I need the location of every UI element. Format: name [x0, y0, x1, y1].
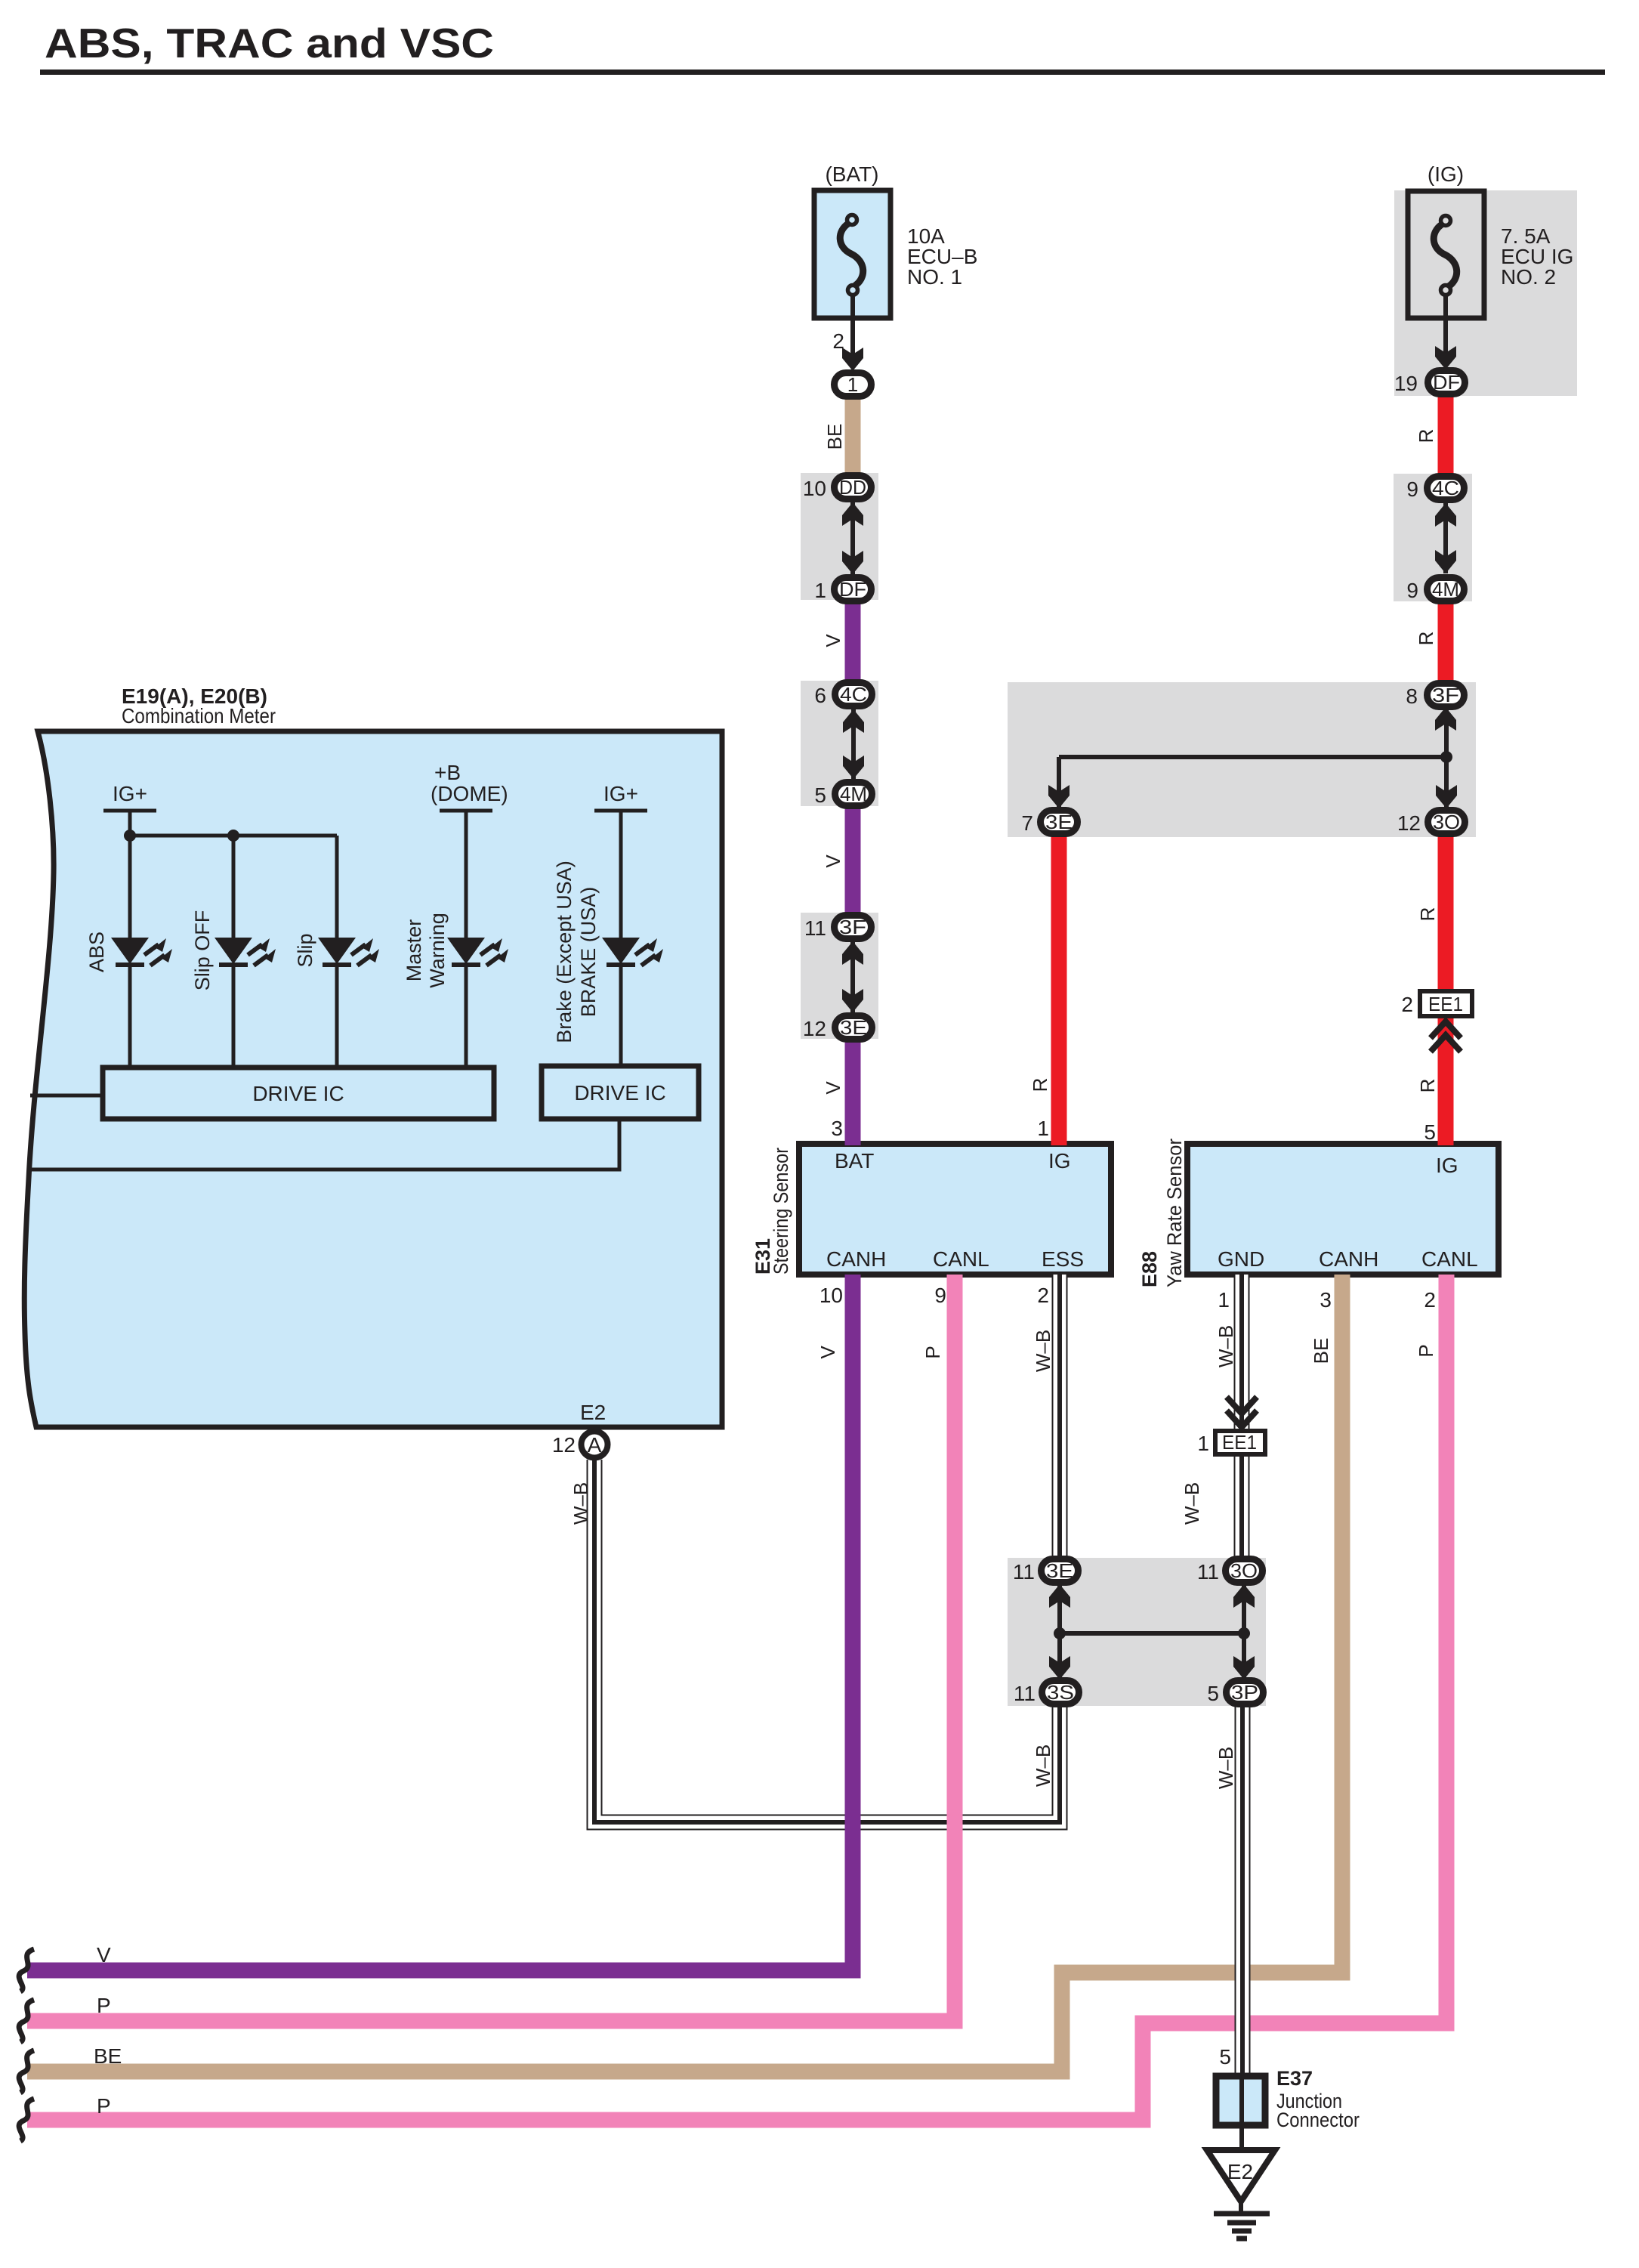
arrow down into DF [842, 551, 863, 574]
svg-text:E37: E37 [1276, 2067, 1313, 2090]
svg-text:V: V [822, 1081, 844, 1095]
wires from LEDs to DRIVE IC [130, 966, 621, 1068]
arrow up into 3O (lower box) [1233, 1584, 1255, 1608]
svg-text:DF: DF [839, 578, 866, 601]
svg-text:Warning: Warning [426, 913, 449, 988]
svg-text:8: 8 [1406, 684, 1418, 708]
svg-text:DRIVE IC: DRIVE IC [252, 1082, 344, 1105]
svg-text:EE1: EE1 [1222, 1431, 1257, 1454]
svg-text:10: 10 [819, 1284, 843, 1307]
lower box internal wiring 3E/3O/3S/3P [1060, 1584, 1244, 1679]
svg-text:(IG): (IG) [1428, 162, 1464, 186]
connector 3O pin 11 (lower) [1226, 1559, 1263, 1583]
svg-text:ESS: ESS [1042, 1247, 1084, 1271]
svg-text:R: R [1415, 632, 1437, 646]
svg-text:E88: E88 [1138, 1251, 1161, 1287]
wire BE fuse to DD [845, 393, 861, 484]
svg-text:4M: 4M [1432, 578, 1459, 601]
DRIVE IC box 1 [103, 1068, 494, 1119]
svg-text:E2: E2 [1227, 2160, 1253, 2183]
svg-text:9: 9 [1406, 579, 1418, 602]
svg-text:CANL: CANL [933, 1247, 989, 1271]
DRIVE IC box 2 [542, 1066, 699, 1119]
svg-text:(DOME): (DOME) [431, 782, 508, 805]
steering sensor E31 box [799, 1144, 1111, 1275]
svg-text:CANL: CANL [1421, 1247, 1478, 1271]
LED ABS indicator [111, 938, 172, 967]
svg-text:Combination Meter: Combination Meter [122, 704, 276, 728]
svg-text:11: 11 [1013, 1560, 1035, 1584]
svg-text:Master: Master [403, 919, 425, 982]
link 3F-3E (BAT column) [850, 941, 855, 1012]
wire V 3E to steering BAT [845, 1023, 861, 1145]
svg-text:12: 12 [1397, 811, 1421, 835]
ground symbol E2 [1207, 2150, 1275, 2239]
svg-text:DRIVE IC: DRIVE IC [574, 1081, 665, 1105]
svg-text:12: 12 [552, 1433, 576, 1457]
link DD-DF [850, 502, 855, 574]
arrow down into 3S [1049, 1656, 1070, 1679]
wire through E37 to ground [1239, 2073, 1244, 2150]
svg-text:4M: 4M [840, 783, 867, 805]
svg-text:W–B: W–B [1032, 1744, 1054, 1787]
wire from DRIVE IC 2 to meter edge [29, 1119, 619, 1170]
svg-text:1: 1 [847, 373, 858, 396]
svg-text:CANH: CANH [826, 1247, 886, 1271]
connector 3E pin 7 [1041, 811, 1078, 834]
svg-text:P: P [921, 1346, 944, 1358]
connector 1 (below BAT fuse) [835, 373, 872, 397]
junction connector E37 [1216, 2076, 1265, 2125]
wire fuse IG output [1443, 295, 1448, 354]
junction connector EE1 pin 1 [1215, 1431, 1265, 1454]
connector 3F pin 8 [1428, 684, 1465, 707]
wire from meter edge to DRIVE IC 1 [30, 1094, 103, 1098]
svg-text:Steering Sensor: Steering Sensor [770, 1148, 792, 1275]
wire R IG fuse DF to 4C [1438, 378, 1454, 491]
svg-text:3S: 3S [1047, 1681, 1074, 1704]
svg-text:BAT: BAT [835, 1149, 874, 1173]
svg-text:R: R [1416, 1079, 1439, 1093]
wire P steering CANL to page edge [27, 1275, 955, 2021]
svg-text:1: 1 [814, 579, 826, 602]
svg-text:V: V [822, 854, 844, 868]
svg-text:BRAKE (USA): BRAKE (USA) [577, 887, 600, 1018]
svg-text:W–B: W–B [569, 1482, 592, 1525]
IG+ supply T-bar 1 [103, 811, 156, 938]
arrow up into 4C [843, 709, 864, 733]
svg-text:11: 11 [1014, 1682, 1036, 1705]
connector 4C pin 9 [1428, 477, 1465, 500]
arrow down into 4M (IG) [1435, 550, 1456, 573]
svg-text:IG+: IG+ [603, 782, 638, 805]
page break squiggle BE wire [19, 2050, 34, 2093]
IG+ supply T-bar 2 [594, 811, 647, 938]
svg-text:3F: 3F [839, 916, 866, 938]
connector 3S pin 11 [1042, 1681, 1079, 1704]
page break squiggle V wire [19, 1949, 34, 1991]
svg-text:W–B: W–B [1032, 1330, 1054, 1372]
svg-text:BE: BE [1310, 1338, 1332, 1364]
svg-text:V: V [816, 1346, 839, 1359]
junction dot lower box right [1238, 1627, 1250, 1639]
svg-text:EE1: EE1 [1428, 993, 1463, 1015]
svg-text:5: 5 [1219, 2045, 1231, 2069]
LED Slip indicator [318, 938, 379, 967]
svg-text:Slip OFF: Slip OFF [191, 910, 214, 991]
wire W-B steering ESS to connector 3E [1052, 1275, 1068, 1562]
fuse element symbol (BAT) [840, 215, 863, 295]
svg-text:3F: 3F [1432, 684, 1459, 706]
+B (DOME) supply T-bar [440, 811, 492, 938]
wire V steering CANH to page edge [27, 1275, 853, 1970]
chevron 2 [1431, 1035, 1461, 1052]
arrow up into DD [842, 502, 863, 526]
svg-text:5: 5 [1424, 1120, 1436, 1144]
svg-text:W–B: W–B [1215, 1325, 1237, 1367]
svg-text:3E: 3E [1046, 1559, 1073, 1582]
svg-text:9: 9 [1406, 477, 1418, 501]
svg-text:3O: 3O [1230, 1559, 1258, 1582]
svg-text:ABS: ABS [85, 932, 108, 972]
wire R 3O to yaw IG [1438, 817, 1454, 1145]
svg-text:5: 5 [1207, 1682, 1219, 1705]
svg-text:IG: IG [1436, 1154, 1458, 1177]
arrow down into 3P [1233, 1656, 1255, 1679]
svg-text:NO. 1: NO. 1 [907, 265, 962, 289]
svg-text:R: R [1415, 429, 1437, 443]
svg-text:Connector: Connector [1276, 2109, 1360, 2131]
wire R 3E to steering IG [1051, 817, 1067, 1145]
fuse ECU-B NO.1 (BAT) box [814, 190, 890, 318]
LED Brake indicator [602, 938, 663, 967]
svg-text:11: 11 [1197, 1560, 1219, 1584]
arrow up into 3F [842, 941, 863, 965]
junction dot 1 [124, 830, 136, 842]
arrow down into 3E [842, 989, 863, 1012]
arrow down into 3O (wide box) [1436, 785, 1457, 808]
svg-text:11: 11 [804, 916, 826, 940]
connector 4M pin 9 [1428, 578, 1465, 601]
svg-text:Brake (Except USA): Brake (Except USA) [553, 861, 576, 1043]
link 4C-4M (BAT column) [851, 709, 856, 779]
connector DF pin 1 [835, 578, 872, 601]
svg-text:Slip: Slip [294, 933, 316, 967]
connector 4M pin 5 [835, 783, 872, 806]
arrow up into 3E (lower box) [1049, 1584, 1070, 1608]
wire V DF to 4C [845, 586, 861, 699]
svg-text:W–B: W–B [1181, 1482, 1203, 1525]
svg-text:IG+: IG+ [113, 782, 147, 805]
page break squiggle P wire 1 [19, 2000, 34, 2042]
svg-text:3E: 3E [840, 1016, 867, 1039]
LED Slip OFF indicator [215, 938, 276, 967]
svg-text:R: R [1416, 907, 1439, 922]
svg-text:3O: 3O [1433, 811, 1460, 833]
arrow up into 4C (IG) [1435, 503, 1456, 527]
svg-text:4C: 4C [1432, 477, 1459, 499]
connector DD pin 10 [835, 476, 872, 499]
svg-text:3P: 3P [1231, 1681, 1258, 1704]
svg-text:2: 2 [832, 329, 844, 353]
grey box: connector 4C/4M (IG column) [1394, 474, 1472, 601]
wire V 4M to 3F [845, 789, 861, 932]
svg-text:DF: DF [1433, 371, 1460, 394]
chevron 2 [1227, 1411, 1257, 1427]
arrow into connector DF (IG) [1435, 346, 1456, 369]
svg-text:BE: BE [823, 424, 846, 450]
svg-text:3E: 3E [1045, 811, 1073, 833]
svg-text:1: 1 [1037, 1117, 1049, 1140]
junction dot lower box left [1054, 1627, 1066, 1639]
svg-text:A: A [588, 1433, 602, 1457]
svg-text:GND: GND [1218, 1247, 1264, 1271]
grey box: connector 3F/3E (BAT column) [801, 913, 878, 1039]
grey box: lower connector 3E/3O/3S/3P [1008, 1558, 1266, 1706]
svg-text:V: V [97, 1943, 111, 1967]
svg-text:ABS, TRAC and VSC: ABS, TRAC and VSC [45, 20, 494, 66]
svg-text:7: 7 [1021, 811, 1033, 835]
junction dot wide box [1440, 751, 1452, 763]
connector 3E pin 11 (lower) [1042, 1559, 1079, 1583]
arrow into connector 1 (BAT) [842, 348, 863, 371]
svg-text:6: 6 [814, 684, 826, 707]
arrow down into 4M [843, 755, 864, 779]
svg-text:2: 2 [1401, 993, 1413, 1016]
svg-text:2: 2 [1037, 1284, 1049, 1307]
wire R 4M to 3F [1438, 585, 1454, 700]
svg-text:NO. 2: NO. 2 [1501, 265, 1556, 289]
chevron pair toward EE1 pin 1 [1227, 1397, 1257, 1414]
meter pin A (12) circle [582, 1432, 608, 1458]
svg-text:9: 9 [934, 1284, 946, 1307]
svg-text:DD: DD [839, 476, 866, 499]
fuse ECU IG NO.2 (IG) box [1408, 191, 1484, 318]
svg-text:+B: +B [434, 761, 461, 784]
svg-text:4C: 4C [840, 683, 867, 706]
connector 3E pin 12 [835, 1016, 872, 1040]
svg-text:IG: IG [1048, 1149, 1071, 1173]
grey box: connector 4C/4M (BAT column) [801, 681, 878, 806]
LED Master Warning indicator [447, 938, 508, 967]
svg-text:BE: BE [94, 2044, 122, 2068]
svg-text:E2: E2 [580, 1401, 606, 1424]
svg-text:P: P [1415, 1344, 1437, 1357]
wide box internal wiring 3F/3E/3O [1059, 707, 1446, 808]
connector 3F pin 11 [835, 916, 872, 939]
connector 4C pin 6 [835, 683, 872, 706]
page break squiggle P wire 2 [19, 2099, 34, 2141]
grey box: connector DD/DF (BAT column) [801, 473, 878, 600]
connector 3P pin 5 [1227, 1681, 1264, 1704]
svg-text:P: P [97, 2094, 111, 2118]
chevron pair toward EE1 pin 2 [1431, 1021, 1461, 1038]
svg-text:19: 19 [1394, 372, 1418, 395]
internal bus wire from IG+ to LEDs [130, 836, 337, 938]
svg-text:3: 3 [831, 1117, 843, 1140]
wire W-B from meter pin A to connector 3S [594, 1460, 1060, 1822]
arrow up into 3F (wide box) [1435, 707, 1456, 731]
svg-text:5: 5 [814, 783, 826, 807]
junction connector EE1 pin 2 [1420, 991, 1472, 1016]
wire fuse BAT output [850, 295, 855, 355]
connector 3O pin 12 [1428, 811, 1465, 834]
svg-text:Yaw Rate Sensor: Yaw Rate Sensor [1163, 1139, 1186, 1287]
yaw rate sensor E88 box [1187, 1144, 1499, 1275]
svg-text:(BAT): (BAT) [825, 162, 878, 186]
svg-text:V: V [822, 634, 844, 647]
svg-text:1: 1 [1197, 1432, 1209, 1455]
svg-text:CANH: CANH [1319, 1247, 1378, 1271]
wire P yaw CANL to page edge [27, 1275, 1446, 2120]
svg-text:P: P [97, 1994, 111, 2017]
wire W-B connector 3P to E37 [1235, 1701, 1251, 2073]
svg-text:3: 3 [1320, 1288, 1332, 1312]
junction dot 2 [227, 830, 239, 842]
svg-text:2: 2 [1424, 1288, 1436, 1312]
svg-text:R: R [1029, 1078, 1051, 1092]
combination meter E19(A),E20(B) body [24, 731, 722, 1427]
arrow down into 3E (wide box) [1048, 785, 1070, 808]
wire W-B yaw GND to connector 3O via EE1 [1234, 1275, 1250, 1562]
link 4C-4M (IG column) [1443, 503, 1448, 573]
wire BE yaw CANH to page edge [27, 1275, 1342, 2072]
grey box: IG fuse block [1394, 190, 1577, 396]
fuse element symbol (IG) [1434, 216, 1456, 295]
svg-text:1: 1 [1218, 1288, 1230, 1312]
svg-text:10: 10 [803, 477, 826, 500]
svg-text:W–B: W–B [1215, 1747, 1237, 1789]
svg-text:12: 12 [803, 1017, 826, 1040]
grey box: wide connector 3F/3E/3O [1008, 682, 1476, 837]
connector DF pin 19 [1428, 371, 1465, 394]
